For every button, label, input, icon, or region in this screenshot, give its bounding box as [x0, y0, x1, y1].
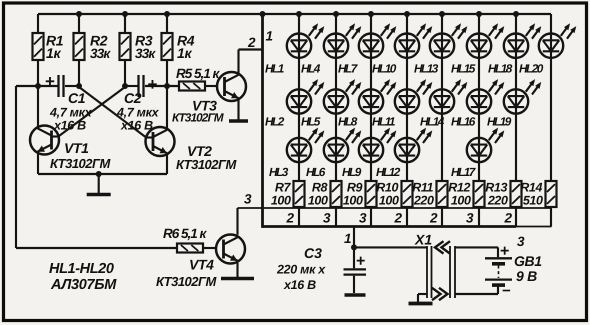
svg-text:3: 3 — [244, 192, 252, 207]
svg-text:100: 100 — [343, 194, 363, 208]
svg-text:R6 5,1 к: R6 5,1 к — [163, 226, 208, 241]
svg-text:HL2: HL2 — [265, 115, 285, 129]
svg-text:9 В: 9 В — [516, 268, 537, 284]
svg-text:100: 100 — [451, 194, 471, 208]
svg-text:2: 2 — [247, 35, 256, 50]
svg-text:С2: С2 — [124, 90, 142, 106]
svg-text:R9: R9 — [347, 181, 363, 195]
svg-text:HL3: HL3 — [269, 165, 289, 179]
svg-text:R10: R10 — [376, 181, 398, 195]
svg-text:КТ3102ГМ: КТ3102ГМ — [176, 157, 237, 172]
svg-text:R7: R7 — [275, 181, 292, 195]
svg-text:33к: 33к — [135, 46, 156, 61]
svg-text:GB1: GB1 — [514, 253, 542, 269]
svg-text:HL12: HL12 — [376, 165, 401, 179]
svg-text:КТ3102ГМ: КТ3102ГМ — [172, 111, 225, 125]
svg-text:2: 2 — [503, 211, 512, 226]
svg-text:+: + — [45, 72, 55, 91]
svg-text:HL19: HL19 — [487, 115, 512, 129]
svg-text:АЛ307БМ: АЛ307БМ — [50, 277, 117, 293]
svg-text:HL20: HL20 — [519, 62, 544, 76]
svg-text:R14: R14 — [520, 181, 542, 195]
svg-text:С3: С3 — [304, 245, 322, 261]
svg-text:100: 100 — [308, 194, 328, 208]
svg-text:33к: 33к — [90, 46, 111, 61]
svg-text:2: 2 — [285, 211, 294, 226]
svg-text:220 мк х: 220 мк х — [276, 263, 326, 277]
svg-text:2: 2 — [429, 211, 438, 226]
svg-text:HL15: HL15 — [451, 62, 476, 76]
svg-text:HL1: HL1 — [265, 62, 284, 76]
svg-text:HL5: HL5 — [301, 115, 321, 129]
svg-text:4,7 мкх: 4,7 мкх — [116, 106, 160, 120]
svg-text:R11: R11 — [412, 181, 433, 195]
svg-text:510: 510 — [523, 194, 543, 208]
svg-text:X1: X1 — [414, 232, 432, 248]
svg-text:1: 1 — [266, 29, 274, 44]
svg-text:КТ3102ГМ: КТ3102ГМ — [156, 274, 217, 289]
svg-text:VT4: VT4 — [189, 257, 214, 273]
svg-text:3: 3 — [517, 234, 525, 249]
svg-text:+: + — [356, 253, 365, 270]
svg-text:HL13: HL13 — [414, 62, 439, 76]
svg-text:HL14: HL14 — [420, 115, 445, 129]
svg-text:HL9: HL9 — [342, 165, 362, 179]
svg-text:+: + — [500, 243, 509, 260]
svg-text:HL16: HL16 — [451, 115, 476, 129]
svg-text:−: − — [502, 283, 511, 300]
svg-text:VT1: VT1 — [64, 140, 89, 156]
svg-text:2: 2 — [393, 211, 402, 226]
svg-text:R8: R8 — [312, 181, 328, 195]
svg-text:С1: С1 — [68, 90, 86, 106]
svg-text:220: 220 — [413, 194, 434, 208]
svg-text:КТ3102ГМ: КТ3102ГМ — [50, 156, 111, 171]
svg-text:HL4: HL4 — [301, 62, 321, 76]
svg-text:HL11: HL11 — [372, 115, 395, 129]
svg-text:R5 5,1 к: R5 5,1 к — [176, 66, 221, 81]
svg-text:HL7: HL7 — [338, 62, 359, 76]
svg-text:HL1-HL20: HL1-HL20 — [49, 261, 114, 277]
svg-text:R13: R13 — [485, 181, 507, 195]
svg-text:1к: 1к — [177, 45, 192, 61]
svg-text:1: 1 — [344, 231, 352, 246]
svg-text:HL17: HL17 — [451, 165, 477, 179]
svg-text:3: 3 — [359, 211, 367, 226]
svg-text:х16 В: х16 В — [283, 278, 316, 292]
svg-text:3: 3 — [323, 211, 331, 226]
svg-text:HL10: HL10 — [372, 62, 397, 76]
svg-text:R12: R12 — [448, 181, 470, 195]
svg-text:100: 100 — [379, 194, 399, 208]
svg-text:HL8: HL8 — [338, 115, 358, 129]
svg-text:HL18: HL18 — [488, 62, 513, 76]
svg-text:220: 220 — [487, 194, 508, 208]
svg-text:3: 3 — [466, 211, 474, 226]
svg-text:HL6: HL6 — [306, 165, 326, 179]
svg-text:1к: 1к — [46, 45, 61, 61]
svg-text:100: 100 — [271, 194, 291, 208]
svg-text:4,7 мкх: 4,7 мкх — [49, 106, 93, 120]
svg-text:+: + — [148, 75, 158, 94]
